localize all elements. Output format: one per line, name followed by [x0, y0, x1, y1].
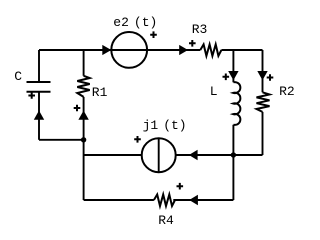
- plus sign at j1 source: [134, 136, 141, 143]
- node junction dot R1-C: [81, 137, 86, 142]
- wire from R3 to top-right corner: [221, 49, 262, 51]
- wire top-left corner vertical to capacitor: [38, 50, 40, 82]
- plus sign at R1 arrow: [74, 105, 81, 112]
- label L: [210, 85, 218, 98]
- label C: [14, 70, 22, 83]
- arrow left on mid rail into j1: [189, 150, 198, 160]
- capacitor C top plate: [27, 81, 51, 83]
- arrow up on R1 branch: [78, 111, 88, 120]
- plus sign at R4: [177, 183, 184, 190]
- capacitor C bottom plate: [27, 91, 51, 93]
- current source j1(t) circle: [142, 138, 176, 172]
- arrow on wire before R3: [179, 45, 188, 55]
- wire L branch bottom vertical: [232, 125, 234, 200]
- vertical diameter line of j1 source: [158, 138, 160, 172]
- wire bottom rail left segment: [84, 199, 154, 201]
- plus sign at capacitor: [28, 92, 35, 99]
- plus sign at R2 branch: [267, 74, 274, 81]
- label R2: [279, 85, 295, 98]
- inductor L coil: [233, 82, 240, 125]
- arrow down on R2 branch: [257, 71, 267, 80]
- wire bottom rail right segment: [173, 199, 233, 201]
- label j1(t): [143, 119, 187, 132]
- voltage source e2(t) U1 circle: [111, 32, 147, 68]
- plus sign at L branch: [223, 74, 230, 81]
- resistor R1 body: [77, 76, 89, 97]
- wire R2 branch bottom vertical: [262, 112, 264, 155]
- wire from e2 to R3: [147, 49, 200, 51]
- arrow into e2 source: [102, 45, 111, 55]
- wire R1 branch bottom vertical: [83, 97, 85, 200]
- arrow left on bottom rail after R4: [189, 195, 198, 205]
- wire connecting C branch to R1 node: [39, 139, 84, 141]
- wire diameter through e2 source: [111, 49, 147, 51]
- wire mid rail arrow segment: [176, 154, 234, 156]
- plus sign at R3: [189, 40, 196, 47]
- label R1: [92, 86, 108, 99]
- wire R2 branch top vertical: [262, 50, 264, 92]
- wire L branch top vertical: [232, 50, 234, 82]
- wire R1 branch top vertical: [83, 50, 85, 76]
- wire mid rail right segment: [233, 154, 262, 156]
- resistor R4 body: [154, 195, 175, 207]
- wire C branch bottom vertical: [38, 92, 40, 140]
- label R3: [192, 23, 208, 36]
- label e2(t): [113, 16, 157, 29]
- node junction dot at L branch and mid rail: [231, 152, 236, 157]
- plus sign at e2 source: [150, 31, 157, 38]
- wire mid rail left segment: [84, 154, 142, 156]
- arrow down on L branch: [228, 71, 238, 80]
- wire top rail left segment: [39, 49, 111, 51]
- label R4: [158, 214, 174, 227]
- resistor R2 body: [257, 92, 270, 112]
- arrow up on C branch: [34, 111, 44, 120]
- resistor R3 body: [200, 44, 221, 56]
